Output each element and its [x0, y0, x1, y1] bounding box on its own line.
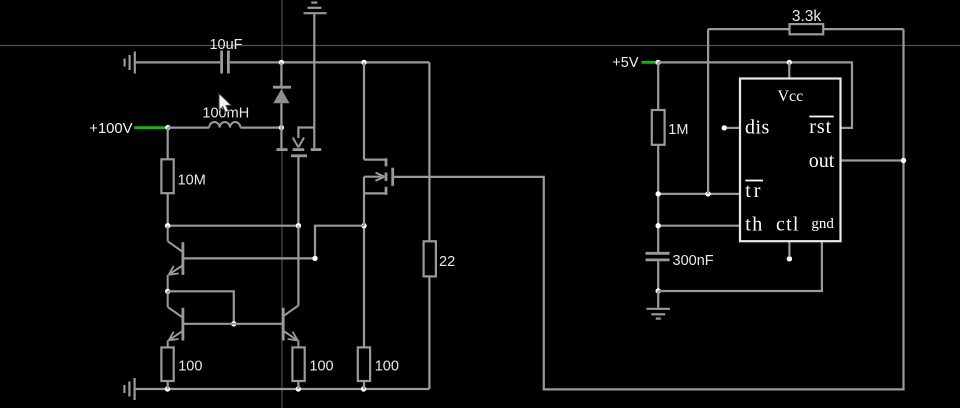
wire (out pin) — [842, 159, 904, 161]
ground (top-left, capacitor return) — [125, 52, 135, 74]
node (rail / diode junction) — [279, 60, 284, 65]
resistor 22 — [424, 241, 456, 276]
svg-text:1M: 1M — [668, 122, 688, 138]
svg-text:300nF: 300nF — [673, 253, 714, 269]
node (Vcc pin junction) — [787, 60, 792, 65]
ground (top, M2 source) — [304, 3, 327, 14]
transistor Q2 — [168, 291, 183, 347]
wire (ctl pin stub) — [788, 241, 790, 256]
node (M1 source / R3 / wire) — [361, 223, 366, 228]
node (link to Q1 base wire) — [312, 256, 317, 261]
wire (top ground to M2 source) — [313, 14, 315, 148]
svg-text:gnd: gnd — [811, 216, 834, 232]
wire (bottom rail) — [136, 388, 430, 390]
node (rail / M2 gate / Q3 collector) — [296, 223, 301, 228]
svg-text:100: 100 — [309, 359, 333, 375]
node (rail / M1 drain junction) — [361, 60, 366, 65]
svg-text:10M: 10M — [178, 173, 206, 189]
crosshair vertical line — [281, 0, 283, 408]
svg-text:10uF: 10uF — [209, 37, 242, 53]
wire (down to 22 resistor) — [428, 62, 430, 241]
svg-text:3.3k: 3.3k — [792, 8, 822, 25]
op-amp U1 555 timer box — [740, 79, 841, 242]
svg-text:th: th — [745, 213, 764, 235]
resistor R 100 (middle) — [292, 347, 333, 389]
svg-text:+100V: +100V — [89, 121, 132, 137]
pin label rst (with overline) — [809, 116, 834, 138]
wire (M1 gate to 555 output loop) — [393, 161, 904, 390]
wire (M1 source to Q1-base link) — [315, 226, 364, 259]
node (base link junction) — [231, 321, 236, 326]
wire — [240, 126, 281, 128]
wire — [136, 61, 221, 63]
resistor 10M — [161, 128, 205, 226]
svg-text:+5V: +5V — [612, 55, 639, 71]
pin label tr (with overline) — [745, 180, 763, 202]
svg-text:22: 22 — [439, 254, 455, 270]
wire (22 resistor to bottom rail) — [428, 276, 430, 389]
node (tr / timing net) — [656, 191, 661, 196]
capacitor 300nF — [646, 253, 714, 291]
wire (+5V rail to rst) — [658, 62, 852, 128]
node (+100V / 10M / inductor) — [165, 125, 170, 130]
ground (bottom-left) — [124, 378, 134, 400]
node (R3 bottom / rail) — [361, 386, 366, 391]
transistor M2 (MOSFET, drain to node A, gate to mirror) — [277, 128, 322, 226]
node (3.3k leg / tr wire) — [705, 191, 710, 196]
wire (+100V green lead) — [134, 126, 168, 129]
diode D1 — [273, 62, 291, 127]
resistor R 100 (left) — [161, 347, 202, 389]
svg-text:ctl: ctl — [776, 213, 800, 235]
capacitor C1 10uF — [209, 37, 242, 74]
svg-text:dis: dis — [745, 117, 770, 139]
wire (tr pin) — [658, 193, 740, 195]
svg-text:out: out — [809, 150, 835, 172]
crosshair horizontal line — [0, 45, 960, 47]
node (dis unconnected post) — [722, 125, 727, 130]
svg-text:rst: rst — [809, 116, 832, 138]
transistor Q3 (mirrored) — [283, 226, 298, 348]
wire (+5V green lead) — [642, 61, 659, 64]
svg-text:Vcc: Vcc — [778, 88, 804, 105]
wire (dis pin stub) — [727, 127, 740, 129]
wire (gnd pin to ground) — [658, 241, 822, 291]
ground (555 / cap) — [647, 291, 671, 319]
svg-text:100: 100 — [178, 359, 202, 375]
node (Q1 emitter / Q2 collector) — [165, 289, 170, 294]
wire (Vcc pin stub) — [788, 62, 790, 78]
node A (inductor / diode / M2 drain) — [279, 125, 284, 130]
node (R1 bottom / rail) — [165, 386, 170, 391]
transistor M1 (power MOSFET) — [364, 62, 393, 225]
wire — [168, 126, 209, 128]
node (R2 bottom / rail) — [296, 386, 301, 391]
node (th / timing net) — [656, 223, 661, 228]
svg-text:100: 100 — [375, 359, 399, 375]
node (cap bottom / gnd wire) — [656, 288, 661, 293]
resistor R 100 (right) with feed wire — [358, 226, 399, 389]
wire (th pin) — [658, 225, 740, 227]
transistor Q1 — [168, 226, 183, 292]
wire (to base link) — [168, 291, 234, 324]
wire (top rail to 22-ohm corner) — [230, 61, 430, 63]
node (+5V / 1M / Vcc rail) — [656, 60, 661, 65]
resistor 3.3k with wires — [708, 8, 903, 194]
mouse cursor — [219, 94, 231, 113]
inductor L1 100mH — [202, 106, 249, 128]
wire (Q1 base) — [183, 257, 315, 259]
wire (mirror top rail) — [168, 225, 299, 227]
wire (Q2/Q3 base wire) — [183, 323, 283, 325]
node (ctl unconnected post) — [787, 256, 792, 261]
node (10M / Q1 collector / rail) — [165, 223, 170, 228]
node (out junction) — [901, 158, 906, 163]
svg-text:tr: tr — [745, 180, 763, 202]
resistor 1M — [652, 62, 689, 252]
